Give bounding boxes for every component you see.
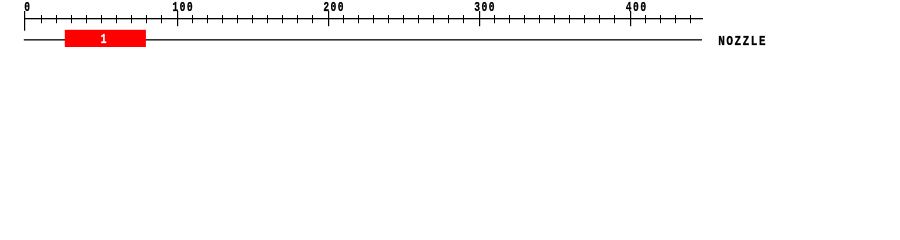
- ruler axis line: [24, 18, 703, 19]
- ruler major tick 100: [177, 11, 178, 26]
- ruler minor ticks 0-100: [41, 15, 162, 23]
- ruler major tick 200: [328, 11, 329, 26]
- segment number 1: [101, 31, 107, 47]
- ruler major tick 300: [479, 11, 480, 26]
- svg-text:0: 0: [489, 0, 495, 16]
- svg-text:E: E: [759, 34, 766, 50]
- svg-text:0: 0: [331, 0, 337, 16]
- nozzle track baseline wire: [24, 39, 702, 40]
- svg-text:0: 0: [481, 0, 487, 16]
- svg-text:0: 0: [187, 0, 193, 16]
- svg-text:Z: Z: [743, 34, 750, 50]
- svg-text:O: O: [726, 34, 733, 50]
- svg-text:0: 0: [640, 0, 646, 16]
- svg-text:0: 0: [338, 0, 344, 16]
- ruler label 400: [626, 0, 646, 16]
- svg-text:0: 0: [180, 0, 186, 16]
- svg-text:1: 1: [172, 0, 178, 16]
- ruler label 300: [474, 0, 494, 16]
- svg-text:Z: Z: [734, 34, 741, 50]
- svg-text:0: 0: [24, 0, 30, 16]
- ruler label 200: [323, 0, 343, 16]
- svg-text:3: 3: [474, 0, 480, 16]
- track name NOZZLE: [718, 34, 766, 50]
- ruler label 0: [24, 0, 30, 16]
- svg-text:N: N: [718, 34, 725, 50]
- ruler minor ticks 200-300: [343, 15, 464, 23]
- svg-text:0: 0: [633, 0, 639, 16]
- ruler minor ticks 410-440: [645, 15, 691, 23]
- svg-text:4: 4: [626, 0, 632, 16]
- ruler minor ticks 300-400: [494, 15, 615, 23]
- ruler label 100: [172, 0, 192, 16]
- svg-text:1: 1: [101, 31, 107, 47]
- svg-text:L: L: [751, 34, 758, 50]
- ruler major tick 0: [24, 11, 25, 31]
- ruler minor ticks 100-200: [192, 15, 313, 23]
- nozzle active segment 1 (red block): [65, 30, 146, 47]
- ruler major tick 400: [630, 11, 631, 26]
- svg-text:2: 2: [323, 0, 329, 16]
